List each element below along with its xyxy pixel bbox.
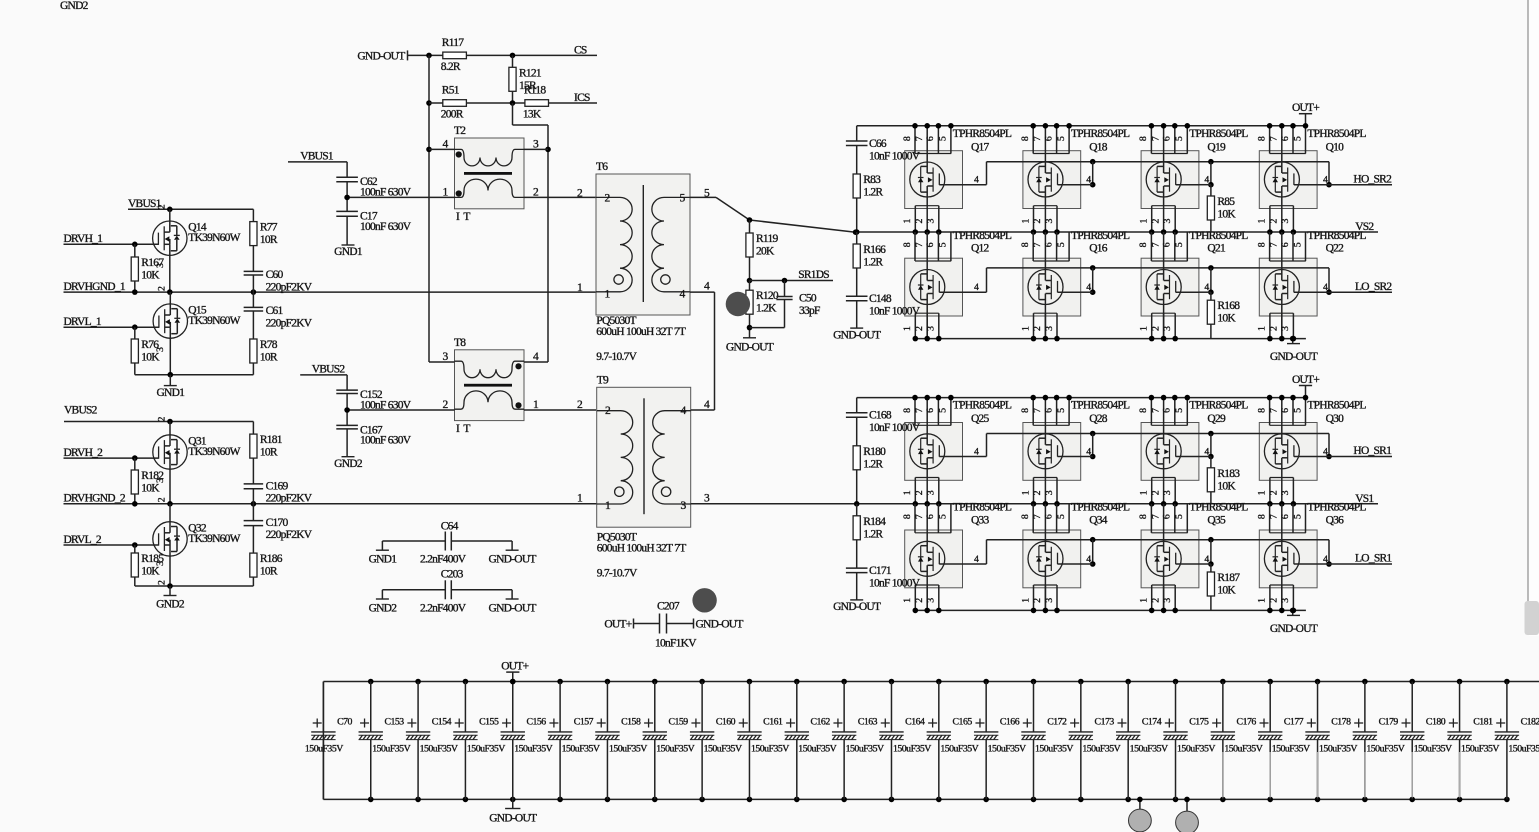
svg-text:220pF2KV: 220pF2KV (266, 493, 313, 505)
svg-text:Q21: Q21 (1207, 243, 1226, 255)
svg-text:C203: C203 (441, 568, 464, 580)
svg-text:Q16: Q16 (1089, 243, 1108, 255)
svg-text:3: 3 (926, 326, 937, 331)
svg-text:5: 5 (1292, 136, 1303, 141)
svg-text:C174: C174 (1142, 717, 1162, 728)
svg-text:3: 3 (155, 561, 166, 566)
svg-text:6: 6 (1162, 136, 1173, 141)
svg-text:VBUS2: VBUS2 (64, 404, 98, 416)
svg-text:C64: C64 (441, 520, 459, 532)
svg-text:10K: 10K (141, 352, 160, 364)
svg-text:9.7-10.7V: 9.7-10.7V (596, 351, 637, 363)
svg-text:8: 8 (1256, 242, 1267, 247)
svg-text:1: 1 (1020, 326, 1031, 331)
svg-text:C178: C178 (1331, 717, 1351, 728)
svg-text:Q22: Q22 (1326, 243, 1345, 255)
svg-text:3: 3 (155, 347, 166, 352)
svg-text:1: 1 (1139, 490, 1150, 495)
svg-text:150uF35V: 150uF35V (1035, 744, 1073, 755)
svg-text:6: 6 (925, 136, 936, 141)
svg-text:150uF35V: 150uF35V (1177, 744, 1215, 755)
svg-text:R51: R51 (442, 85, 460, 97)
svg-text:10R: 10R (260, 447, 278, 459)
svg-text:Q18: Q18 (1089, 141, 1108, 153)
svg-text:C172: C172 (1047, 717, 1067, 728)
svg-text:3: 3 (926, 219, 937, 224)
svg-text:C157: C157 (574, 717, 594, 728)
svg-text:150uF35V: 150uF35V (940, 744, 978, 755)
svg-text:DRVHGND_2: DRVHGND_2 (64, 493, 126, 505)
svg-text:R83: R83 (863, 174, 881, 186)
svg-text:8: 8 (902, 514, 913, 519)
svg-text:6: 6 (925, 408, 936, 413)
svg-text:2: 2 (157, 417, 168, 422)
svg-text:8: 8 (902, 242, 913, 247)
svg-text:C169: C169 (266, 481, 289, 493)
svg-text:T8: T8 (454, 337, 466, 349)
svg-text:C179: C179 (1379, 717, 1399, 728)
svg-text:GND1: GND1 (156, 387, 185, 399)
svg-text:7: 7 (1150, 242, 1161, 247)
svg-text:100nF 630V: 100nF 630V (360, 399, 412, 411)
svg-text:7: 7 (914, 408, 925, 413)
svg-text:10nF 1000V: 10nF 1000V (869, 150, 921, 162)
svg-text:Q28: Q28 (1089, 413, 1108, 425)
svg-text:6: 6 (1043, 408, 1054, 413)
svg-text:C154: C154 (432, 717, 452, 728)
svg-text:C170: C170 (266, 517, 289, 529)
svg-text:DRVHGND_1: DRVHGND_1 (64, 281, 126, 293)
svg-text:TPHR8504PL: TPHR8504PL (1071, 400, 1130, 412)
svg-text:8: 8 (1020, 136, 1031, 141)
svg-text:R166: R166 (863, 244, 886, 256)
svg-text:4: 4 (1086, 447, 1091, 458)
svg-text:7: 7 (914, 514, 925, 519)
svg-text:8: 8 (1020, 514, 1031, 519)
svg-text:2: 2 (1150, 490, 1161, 495)
svg-text:10K: 10K (1217, 480, 1236, 492)
svg-text:R119: R119 (756, 233, 778, 245)
svg-text:Q10: Q10 (1326, 141, 1345, 153)
svg-text:C60: C60 (266, 269, 284, 281)
svg-text:3: 3 (926, 490, 937, 495)
svg-text:C155: C155 (479, 717, 499, 728)
svg-text:150uF35V: 150uF35V (1508, 744, 1539, 755)
svg-text:GND-OUT: GND-OUT (696, 619, 744, 631)
svg-text:2: 2 (1150, 598, 1161, 603)
svg-text:DRVL_1: DRVL_1 (64, 316, 102, 328)
svg-text:150uF35V: 150uF35V (988, 744, 1026, 755)
svg-text:TPHR8504PL: TPHR8504PL (1071, 502, 1130, 514)
svg-text:TPHR8504PL: TPHR8504PL (1071, 128, 1130, 140)
svg-text:8: 8 (1256, 136, 1267, 141)
svg-text:150uF35V: 150uF35V (1319, 744, 1357, 755)
svg-text:8: 8 (1020, 408, 1031, 413)
svg-text:C148: C148 (869, 293, 892, 305)
svg-text:1: 1 (1257, 219, 1268, 224)
svg-text:C165: C165 (953, 717, 973, 728)
svg-text:600uH 100uH 32T 7T: 600uH 100uH 32T 7T (597, 543, 687, 555)
svg-text:1.2R: 1.2R (863, 257, 883, 269)
svg-text:150uF35V: 150uF35V (514, 744, 552, 755)
svg-text:10nF1KV: 10nF1KV (655, 638, 697, 650)
svg-text:C162: C162 (811, 717, 831, 728)
svg-text:10R: 10R (260, 566, 278, 578)
svg-text:2: 2 (157, 580, 168, 585)
svg-text:2: 2 (157, 497, 168, 502)
svg-text:GND1: GND1 (369, 554, 398, 566)
svg-text:TK39N60W: TK39N60W (188, 232, 240, 244)
svg-text:I T: I T (456, 211, 470, 223)
svg-text:3: 3 (1162, 490, 1173, 495)
svg-text:OUT+: OUT+ (501, 660, 528, 672)
svg-text:5: 5 (938, 136, 949, 141)
svg-text:R184: R184 (863, 516, 886, 528)
svg-text:1: 1 (902, 598, 913, 603)
svg-text:150uF35V: 150uF35V (751, 744, 789, 755)
svg-text:3: 3 (1162, 219, 1173, 224)
svg-text:DRVH_2: DRVH_2 (64, 447, 104, 459)
svg-text:150uF35V: 150uF35V (420, 744, 458, 755)
svg-text:TK39N60W: TK39N60W (188, 315, 240, 327)
svg-text:2: 2 (157, 286, 168, 291)
svg-text:10K: 10K (1217, 585, 1236, 597)
svg-text:10nF 1000V: 10nF 1000V (869, 422, 921, 434)
svg-text:1: 1 (1257, 598, 1268, 603)
svg-text:10R: 10R (260, 352, 278, 364)
svg-text:6: 6 (1280, 514, 1291, 519)
svg-text:8: 8 (1020, 242, 1031, 247)
svg-text:8: 8 (1138, 242, 1149, 247)
svg-text:SR1DS: SR1DS (798, 269, 829, 281)
svg-text:4: 4 (1323, 282, 1328, 293)
svg-text:1.2R: 1.2R (863, 528, 883, 540)
svg-text:5: 5 (1056, 408, 1067, 413)
svg-text:13K: 13K (523, 109, 542, 121)
svg-text:7: 7 (914, 242, 925, 247)
svg-text:5: 5 (1174, 408, 1185, 413)
svg-text:T6: T6 (596, 161, 608, 173)
svg-text:VBUS2: VBUS2 (312, 363, 346, 375)
svg-text:C161: C161 (763, 717, 783, 728)
svg-text:TPHR8504PL: TPHR8504PL (1189, 502, 1248, 514)
svg-text:2: 2 (1150, 219, 1161, 224)
svg-text:150uF35V: 150uF35V (1272, 744, 1310, 755)
svg-text:DRVL_2: DRVL_2 (64, 534, 102, 546)
svg-text:150uF35V: 150uF35V (846, 744, 884, 755)
svg-text:10K: 10K (141, 483, 160, 495)
svg-text:6: 6 (1280, 408, 1291, 413)
svg-text:3: 3 (1280, 598, 1291, 603)
svg-text:1: 1 (1257, 326, 1268, 331)
svg-text:4: 4 (1204, 554, 1209, 565)
svg-text:C168: C168 (869, 410, 892, 422)
svg-text:150uF35V: 150uF35V (798, 744, 836, 755)
svg-text:GND1: GND1 (334, 246, 363, 258)
svg-text:150uF35V: 150uF35V (1130, 744, 1168, 755)
svg-text:6: 6 (1162, 408, 1173, 413)
svg-text:220pF2KV: 220pF2KV (266, 529, 313, 541)
svg-text:8.2R: 8.2R (441, 61, 461, 73)
svg-text:7: 7 (1032, 514, 1043, 519)
svg-text:LO_SR2: LO_SR2 (1355, 281, 1392, 293)
svg-text:9.7-10.7V: 9.7-10.7V (597, 568, 638, 580)
svg-text:6: 6 (925, 242, 936, 247)
svg-text:4: 4 (1204, 175, 1209, 186)
svg-text:VS1: VS1 (1355, 493, 1374, 505)
svg-text:R85: R85 (1217, 196, 1235, 208)
svg-text:2: 2 (914, 490, 925, 495)
svg-text:3: 3 (155, 478, 166, 483)
svg-text:150uF35V: 150uF35V (467, 744, 505, 755)
svg-text:TPHR8504PL: TPHR8504PL (953, 400, 1012, 412)
svg-text:TPHR8504PL: TPHR8504PL (1189, 128, 1248, 140)
svg-text:10K: 10K (1217, 313, 1236, 325)
svg-text:Q12: Q12 (971, 243, 990, 255)
svg-text:3: 3 (1044, 490, 1055, 495)
svg-text:R121: R121 (519, 67, 542, 79)
svg-text:R117: R117 (442, 37, 464, 49)
svg-text:100nF 630V: 100nF 630V (360, 187, 412, 199)
svg-text:1.2K: 1.2K (756, 303, 777, 315)
svg-text:220pF2KV: 220pF2KV (266, 282, 313, 294)
svg-text:7: 7 (1269, 514, 1280, 519)
svg-text:R183: R183 (1217, 468, 1240, 480)
svg-text:1: 1 (902, 326, 913, 331)
svg-text:100nF 630V: 100nF 630V (360, 435, 412, 447)
svg-text:Q29: Q29 (1207, 413, 1226, 425)
svg-text:1: 1 (1139, 219, 1150, 224)
svg-text:C70: C70 (337, 717, 352, 728)
svg-text:TK39N60W: TK39N60W (188, 446, 240, 458)
svg-text:LO_SR1: LO_SR1 (1355, 553, 1392, 565)
svg-text:TPHR8504PL: TPHR8504PL (1307, 128, 1366, 140)
svg-text:ICS: ICS (574, 92, 590, 104)
svg-text:I T: I T (456, 423, 470, 435)
svg-text:10R: 10R (260, 234, 278, 246)
svg-text:C171: C171 (869, 565, 892, 577)
svg-text:DRVH_1: DRVH_1 (64, 233, 104, 245)
svg-text:3: 3 (1280, 219, 1291, 224)
svg-text:10K: 10K (141, 270, 160, 282)
svg-text:TPHR8504PL: TPHR8504PL (953, 502, 1012, 514)
svg-text:2.2nF400V: 2.2nF400V (420, 554, 467, 566)
svg-text:3: 3 (155, 263, 166, 268)
svg-text:200R: 200R (441, 109, 464, 121)
svg-text:6: 6 (1043, 514, 1054, 519)
svg-text:100nF 630V: 100nF 630V (360, 221, 412, 233)
svg-text:GND-OUT: GND-OUT (357, 50, 405, 62)
svg-text:GND-OUT: GND-OUT (833, 329, 881, 341)
svg-text:R78: R78 (260, 339, 278, 351)
svg-text:Q30: Q30 (1326, 413, 1345, 425)
svg-text:2: 2 (1032, 219, 1043, 224)
svg-text:R168: R168 (1217, 300, 1240, 312)
svg-text:C166: C166 (1000, 717, 1020, 728)
svg-text:GND-OUT: GND-OUT (1270, 623, 1318, 635)
svg-text:R186: R186 (260, 553, 283, 565)
svg-text:7: 7 (914, 136, 925, 141)
svg-text:1: 1 (902, 490, 913, 495)
svg-text:1.2R: 1.2R (863, 458, 883, 470)
svg-text:VBUS1: VBUS1 (300, 150, 334, 162)
svg-text:GND-OUT: GND-OUT (726, 341, 774, 353)
svg-text:3: 3 (1162, 326, 1173, 331)
svg-text:C207: C207 (657, 601, 680, 613)
svg-text:33pF: 33pF (799, 305, 820, 317)
svg-text:R77: R77 (260, 222, 278, 234)
svg-text:6: 6 (1162, 514, 1173, 519)
svg-text:C180: C180 (1426, 717, 1446, 728)
svg-text:2: 2 (1032, 326, 1043, 331)
svg-text:C158: C158 (621, 717, 641, 728)
svg-text:VS2: VS2 (1355, 221, 1374, 233)
svg-text:150uF35V: 150uF35V (372, 744, 410, 755)
svg-text:150uF35V: 150uF35V (1461, 744, 1499, 755)
svg-text:C181: C181 (1473, 717, 1493, 728)
svg-text:3: 3 (1044, 326, 1055, 331)
svg-text:8: 8 (1256, 408, 1267, 413)
svg-text:4: 4 (974, 175, 979, 186)
svg-text:5: 5 (938, 408, 949, 413)
svg-text:TPHR8504PL: TPHR8504PL (953, 128, 1012, 140)
svg-text:GND2: GND2 (60, 0, 89, 12)
svg-text:5: 5 (1174, 514, 1185, 519)
svg-text:3: 3 (1044, 219, 1055, 224)
svg-text:1: 1 (1020, 219, 1031, 224)
svg-text:2.2nF400V: 2.2nF400V (420, 602, 467, 614)
svg-text:C50: C50 (799, 293, 817, 305)
svg-text:TPHR8504PL: TPHR8504PL (1189, 230, 1248, 242)
svg-text:5: 5 (938, 514, 949, 519)
svg-text:Q33: Q33 (971, 515, 990, 527)
svg-text:20K: 20K (756, 246, 775, 258)
svg-text:7: 7 (1150, 136, 1161, 141)
svg-text:Q35: Q35 (1207, 515, 1226, 527)
svg-text:4: 4 (1086, 282, 1091, 293)
svg-text:1: 1 (1139, 326, 1150, 331)
svg-text:600uH 100uH 32T 7T: 600uH 100uH 32T 7T (596, 326, 686, 338)
svg-text:8: 8 (1138, 408, 1149, 413)
svg-text:C175: C175 (1189, 717, 1209, 728)
svg-text:10nF 1000V: 10nF 1000V (869, 306, 921, 318)
svg-text:1.2R: 1.2R (863, 187, 883, 199)
svg-text:HO_SR1: HO_SR1 (1353, 445, 1392, 457)
svg-text:10nF 1000V: 10nF 1000V (869, 577, 921, 589)
svg-text:3: 3 (926, 598, 937, 603)
svg-text:GND-OUT: GND-OUT (489, 602, 537, 614)
svg-text:2: 2 (1269, 598, 1280, 603)
svg-text:7: 7 (1032, 408, 1043, 413)
svg-text:GND2: GND2 (369, 602, 398, 614)
svg-text:T9: T9 (597, 374, 609, 386)
svg-text:GND-OUT: GND-OUT (489, 813, 537, 825)
svg-text:7: 7 (1269, 242, 1280, 247)
svg-text:GND2: GND2 (156, 599, 185, 611)
svg-text:5: 5 (938, 242, 949, 247)
svg-text:R181: R181 (260, 434, 283, 446)
svg-text:GND2: GND2 (334, 458, 363, 470)
svg-text:3: 3 (1280, 326, 1291, 331)
svg-text:7: 7 (1032, 242, 1043, 247)
svg-text:5: 5 (1292, 514, 1303, 519)
svg-text:10K: 10K (1217, 209, 1236, 221)
svg-text:10K: 10K (141, 566, 160, 578)
svg-text:2: 2 (1032, 598, 1043, 603)
svg-text:150uF35V: 150uF35V (562, 744, 600, 755)
svg-text:C160: C160 (716, 717, 736, 728)
svg-text:8: 8 (902, 136, 913, 141)
svg-text:8: 8 (1138, 514, 1149, 519)
svg-text:1: 1 (1020, 490, 1031, 495)
svg-text:R187: R187 (1217, 572, 1240, 584)
svg-text:7: 7 (1150, 514, 1161, 519)
svg-text:150uF35V: 150uF35V (305, 744, 343, 755)
svg-text:7: 7 (1269, 136, 1280, 141)
svg-text:150uF35V: 150uF35V (1082, 744, 1120, 755)
svg-text:C164: C164 (905, 717, 925, 728)
svg-text:OUT+: OUT+ (604, 619, 631, 631)
svg-text:6: 6 (1043, 136, 1054, 141)
svg-text:4: 4 (974, 447, 979, 458)
svg-text:2: 2 (1269, 326, 1280, 331)
svg-text:7: 7 (1269, 408, 1280, 413)
svg-text:5: 5 (1056, 514, 1067, 519)
svg-text:TPHR8504PL: TPHR8504PL (1071, 230, 1130, 242)
svg-text:2: 2 (914, 598, 925, 603)
svg-text:C182: C182 (1521, 717, 1539, 728)
svg-text:4: 4 (1323, 554, 1328, 565)
svg-text:5: 5 (1056, 242, 1067, 247)
svg-text:5: 5 (1174, 136, 1185, 141)
svg-text:1: 1 (1020, 598, 1031, 603)
svg-text:HO_SR2: HO_SR2 (1353, 173, 1392, 185)
svg-text:TPHR8504PL: TPHR8504PL (1307, 400, 1366, 412)
svg-text:4: 4 (1204, 447, 1209, 458)
svg-text:2: 2 (914, 219, 925, 224)
svg-text:R118: R118 (524, 85, 546, 97)
svg-text:Q17: Q17 (971, 141, 990, 153)
svg-text:T2: T2 (454, 125, 466, 137)
svg-text:150uF35V: 150uF35V (656, 744, 694, 755)
svg-text:OUT+: OUT+ (1292, 374, 1319, 386)
svg-text:3: 3 (1044, 598, 1055, 603)
svg-text:5: 5 (1292, 408, 1303, 413)
svg-text:C66: C66 (869, 138, 887, 150)
svg-text:R120: R120 (756, 290, 779, 302)
svg-text:8: 8 (902, 408, 913, 413)
svg-text:TK39N60W: TK39N60W (188, 533, 240, 545)
svg-text:150uF35V: 150uF35V (609, 744, 647, 755)
svg-text:GND-OUT: GND-OUT (1270, 351, 1318, 363)
svg-text:7: 7 (1150, 408, 1161, 413)
svg-text:TPHR8504PL: TPHR8504PL (1189, 400, 1248, 412)
svg-text:C61: C61 (266, 305, 284, 317)
svg-text:2: 2 (157, 204, 168, 209)
svg-text:4: 4 (974, 554, 979, 565)
svg-text:Q36: Q36 (1326, 515, 1345, 527)
svg-text:6: 6 (1043, 242, 1054, 247)
svg-text:4: 4 (1086, 175, 1091, 186)
svg-text:C153: C153 (384, 717, 404, 728)
svg-text:150uF35V: 150uF35V (893, 744, 931, 755)
svg-text:1: 1 (1257, 490, 1268, 495)
svg-text:2: 2 (914, 326, 925, 331)
svg-text:Q34: Q34 (1089, 515, 1108, 527)
svg-text:2: 2 (1269, 219, 1280, 224)
svg-text:TPHR8504PL: TPHR8504PL (953, 230, 1012, 242)
svg-text:C156: C156 (526, 717, 546, 728)
